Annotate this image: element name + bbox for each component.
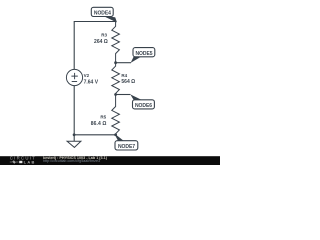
svg-text:R5: R5 — [100, 114, 106, 119]
svg-text:http://circuitlab.com/c/fg5aak: http://circuitlab.com/c/fg5aak9mze3 — [43, 159, 100, 163]
svg-text:V2: V2 — [84, 73, 90, 78]
footer logo waveform — [10, 161, 19, 163]
ground stub — [73, 135, 75, 141]
ground — [67, 141, 81, 147]
wire left vertical upper — [73, 21, 75, 69]
svg-text:NODE5: NODE5 — [136, 51, 153, 57]
svg-text:264 Ω: 264 Ω — [94, 39, 108, 45]
svg-text:R4: R4 — [121, 73, 127, 78]
flag tail NODE6 — [130, 94, 141, 100]
wire node6 stub — [116, 94, 131, 96]
V2 plus — [71, 73, 77, 79]
wire node5 stub — [116, 62, 131, 64]
flag tail NODE7 — [116, 135, 124, 141]
svg-text:NODE6: NODE6 — [135, 103, 152, 109]
svg-text:NODE7: NODE7 — [118, 144, 135, 150]
flag box NODE6 — [133, 100, 155, 109]
resistor R3 — [112, 22, 120, 63]
flag box NODE7 — [115, 141, 138, 150]
svg-text:LAB: LAB — [24, 159, 35, 164]
voltage source V2 circle — [66, 69, 82, 85]
junction node NODE6 (R4/R5) — [114, 93, 117, 96]
svg-text:564 Ω: 564 Ω — [121, 79, 135, 85]
resistor R4 — [112, 63, 120, 95]
flag box NODE4 — [91, 7, 113, 16]
flag tail NODE5 — [131, 57, 141, 63]
resistor R5 — [112, 95, 120, 135]
wire top horizontal — [74, 21, 115, 23]
svg-text:NODE4: NODE4 — [94, 11, 111, 17]
flag tail NODE4 — [105, 17, 117, 23]
svg-text:7.64 V: 7.64 V — [84, 79, 99, 85]
junction node NODE5 (R3/R4) — [114, 61, 117, 64]
footer logo square — [19, 161, 22, 163]
junction node NODE7 (R5 bottom) — [114, 133, 117, 136]
svg-text:R3: R3 — [101, 33, 107, 38]
junction ground tee — [73, 133, 76, 136]
footer bar — [0, 156, 220, 165]
wire bottom horizontal — [74, 134, 116, 136]
flag box NODE5 — [133, 48, 155, 57]
svg-text:86.4 Ω: 86.4 Ω — [91, 121, 107, 127]
V2 minus — [72, 81, 77, 83]
wire left vertical lower — [73, 86, 75, 135]
